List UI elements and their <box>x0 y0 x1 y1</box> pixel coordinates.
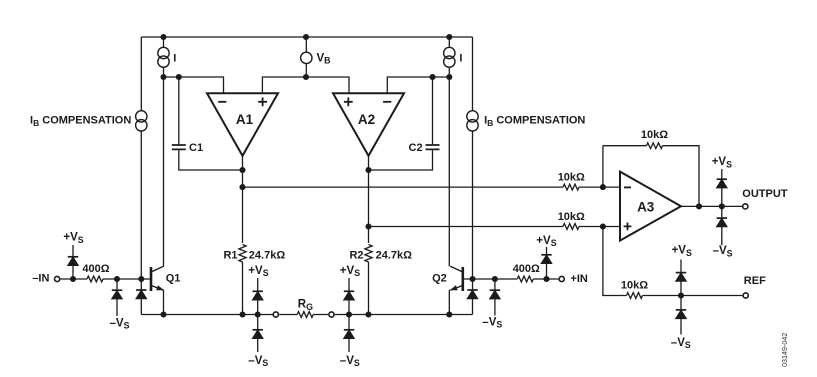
node A2 out C2 junction <box>365 167 371 173</box>
wire -IN to 400 <box>60 278 87 280</box>
node C2 branch <box>429 74 435 80</box>
svg-text:03149-042: 03149-042 <box>780 333 789 367</box>
wire VB stub bottom <box>305 64 307 77</box>
diode -IN to +VS <box>68 256 78 258</box>
wire A2 output upper <box>368 156 370 243</box>
terminal +IN <box>559 276 564 281</box>
diode REF clamp to +VS <box>676 272 686 274</box>
node C1 branch <box>176 74 182 80</box>
wire bottom rail left <box>141 314 272 316</box>
wire -IN clamp up <box>72 266 74 279</box>
wire left rail lower segment <box>140 131 142 279</box>
svg-text:R2: R2 <box>349 250 363 262</box>
svg-text:IB COMPENSATION: IB COMPENSATION <box>484 115 585 128</box>
wire clamp diode right to bottom rail <box>472 299 474 315</box>
node output clamp junction <box>719 203 725 209</box>
capacitor C1 <box>172 145 186 149</box>
wire R2 to bottom rail <box>368 262 370 315</box>
wire right rail to clamp diode <box>472 279 474 290</box>
wire Q2 base to 400 <box>464 278 517 280</box>
svg-text:I: I <box>173 53 176 65</box>
diode +IN to -VS <box>490 289 500 291</box>
wire Q1 emitter <box>163 290 165 315</box>
wire output clamp down <box>721 206 723 218</box>
terminal RG left <box>273 312 278 317</box>
svg-text:10kΩ: 10kΩ <box>558 172 585 184</box>
node A3 inverting feedback junction <box>600 184 606 190</box>
wire REF clamp to -VS label <box>680 319 682 335</box>
diode -IN to -VS <box>112 289 122 291</box>
node top rail I right <box>446 34 452 40</box>
diode base-emitter clamp right <box>467 289 477 291</box>
svg-text:OUTPUT: OUTPUT <box>742 188 788 200</box>
node RG clamp right <box>346 311 352 317</box>
diode REF clamp to -VS <box>676 309 686 311</box>
resistor 400 right <box>517 276 533 282</box>
wire top supply rail <box>141 36 472 38</box>
terminal OUTPUT <box>743 204 748 209</box>
svg-text:–IN: –IN <box>32 273 49 285</box>
terminal REF <box>743 293 748 298</box>
resistor 10k feedback <box>647 143 663 149</box>
svg-text:24.7kΩ: 24.7kΩ <box>376 250 413 262</box>
wire A1 output to 10k <box>243 186 564 188</box>
capacitor C2 <box>426 145 440 149</box>
diode output clamp to +VS <box>717 178 727 180</box>
current source I right <box>444 47 455 58</box>
wire C1 top <box>178 77 180 144</box>
wire A2 inverting input <box>387 77 449 93</box>
wire left rail to clamp diode <box>140 279 142 290</box>
svg-text:10kΩ: 10kΩ <box>641 129 668 141</box>
wire A2 output to 10k <box>369 226 564 228</box>
svg-text:R1: R1 <box>223 250 237 262</box>
wire C2 top <box>432 77 434 144</box>
wire 10k to A3 inverting <box>579 186 620 188</box>
wire left rail upper segment <box>140 37 142 111</box>
wire C2 bottom to A2 output <box>369 150 433 170</box>
wire I source right top <box>448 37 450 47</box>
resistor R1 24.7k <box>239 245 246 263</box>
terminal RG right <box>329 312 334 317</box>
wire RG clamp right up <box>348 300 350 314</box>
svg-text:A3: A3 <box>637 200 655 215</box>
wire right rail lower segment <box>472 131 474 279</box>
wire feedback top right and down <box>663 146 700 207</box>
wire bottom rail right <box>335 314 473 316</box>
op-amp A1 <box>207 93 278 156</box>
node Q2 emitter rail <box>446 311 452 317</box>
wire output clamp to -VS label <box>721 227 723 245</box>
diode RG left to -VS <box>253 329 263 331</box>
transistor Q2 <box>461 267 464 291</box>
svg-text:IB COMPENSATION: IB COMPENSATION <box>30 115 131 128</box>
label A1 minus <box>218 101 226 103</box>
node -IN clamp <box>70 276 76 282</box>
node REF clamp junction <box>678 292 684 298</box>
node base Q2 rail junction <box>469 276 475 282</box>
wire RG pin right <box>313 314 328 316</box>
svg-text:400Ω: 400Ω <box>513 263 540 275</box>
wire RG right -VS stub <box>348 339 350 352</box>
current source I left <box>158 47 169 58</box>
label A3 minus <box>624 186 631 188</box>
wire -IN +VS stub <box>72 245 74 257</box>
node VB top rail <box>303 34 309 40</box>
node +IN clamp <box>543 276 549 282</box>
wire +IN -VS stub <box>494 299 496 316</box>
svg-text:C1: C1 <box>189 142 203 154</box>
svg-text:REF: REF <box>744 275 766 287</box>
transistor Q1 <box>150 267 153 291</box>
resistor RG <box>297 312 313 318</box>
node feedback output junction <box>696 203 702 209</box>
wire REF clamp up <box>680 281 682 295</box>
terminal -IN <box>55 276 60 281</box>
svg-text:Q2: Q2 <box>432 273 447 285</box>
wire I source left to node <box>163 67 165 77</box>
wire R1 to bottom rail <box>242 262 244 315</box>
wire output clamp to +VS label <box>721 169 723 179</box>
wire RG clamp left up <box>257 300 259 314</box>
diode RG left to +VS <box>253 290 263 292</box>
node -IN series clamp <box>114 276 120 282</box>
wire 400 to +IN <box>533 278 558 280</box>
wire RG clamp left down <box>257 315 259 330</box>
wire VB stub top <box>305 37 307 52</box>
wire Q1 collector line <box>163 77 165 266</box>
node I right lower <box>446 74 452 80</box>
wire RG clamp right down <box>348 315 350 330</box>
resistor 10k A3 non-inverting input <box>563 224 579 230</box>
wire A1 output upper <box>242 156 244 243</box>
voltage source VB <box>301 52 312 63</box>
wire REF clamp down <box>680 296 682 310</box>
wire RG right +VS stub <box>348 278 350 291</box>
wire +IN clamp up <box>546 264 548 279</box>
wire I source left top <box>163 37 165 47</box>
node I left lower <box>160 74 166 80</box>
wire Q2 collector line <box>448 77 450 266</box>
diode base-emitter clamp left <box>136 289 146 291</box>
svg-text:I: I <box>459 53 462 65</box>
diode output clamp to -VS <box>717 217 727 219</box>
wire A3 non-inverting down <box>603 227 627 296</box>
resistor 400 left <box>87 276 103 282</box>
svg-text:+IN: +IN <box>570 273 587 285</box>
resistor 10k A3 inverting input <box>563 184 579 190</box>
label A3 plus <box>624 223 632 231</box>
current source IB compensation left <box>136 111 147 122</box>
svg-text:Q1: Q1 <box>166 273 181 285</box>
resistor 10k REF <box>627 293 643 299</box>
node Q1 emitter rail <box>160 311 166 317</box>
wire feedback up <box>602 146 604 187</box>
wire A3 output <box>681 205 742 207</box>
wire +IN +VS stub <box>546 247 548 255</box>
node base Q1 rail junction <box>138 276 144 282</box>
node top rail I left <box>160 34 166 40</box>
label A2 plus <box>344 97 353 106</box>
wire REF clamp to +VS label <box>680 260 682 273</box>
wire 400 to Q1 base <box>103 278 150 280</box>
node A2 out to A3 junction <box>365 223 371 229</box>
svg-text:C2: C2 <box>409 142 423 154</box>
svg-text:10kΩ: 10kΩ <box>621 280 648 292</box>
wire A2 non-inverting input <box>306 77 349 93</box>
svg-text:24.7kΩ: 24.7kΩ <box>249 250 286 262</box>
svg-text:A1: A1 <box>236 112 254 127</box>
node R1 bottom rail <box>239 311 245 317</box>
svg-text:10kΩ: 10kΩ <box>558 211 585 223</box>
node R2 bottom rail <box>365 311 371 317</box>
node A1 out to A3 junction <box>239 184 245 190</box>
wire A1 inverting input <box>164 77 224 93</box>
diode +IN to +VS <box>541 254 551 256</box>
wire clamp diode to bottom rail <box>140 299 142 315</box>
wire RG left -VS stub <box>257 339 259 352</box>
wire -IN -VS stub <box>116 299 118 316</box>
wire RG left +VS stub <box>257 278 259 291</box>
diode RG right to -VS <box>344 329 354 331</box>
label A1 plus <box>258 97 267 106</box>
wire +IN clamp down <box>494 279 496 290</box>
diode RG right to +VS <box>344 290 354 292</box>
node A3 non-inverting REF junction <box>600 223 606 229</box>
wire I source right to node <box>448 67 450 77</box>
wire C1 bottom to A1 output <box>179 150 243 170</box>
label A2 minus <box>383 101 391 103</box>
wire -IN clamp down <box>116 279 118 290</box>
svg-text:400Ω: 400Ω <box>82 263 109 275</box>
node +IN series clamp <box>492 276 498 282</box>
op-amp A3 <box>620 172 681 241</box>
wire 10k REF to terminal <box>643 295 743 297</box>
wire output clamp up <box>721 188 723 206</box>
current source IB compensation right <box>467 111 478 122</box>
node VB lower <box>303 74 309 80</box>
wire right rail upper segment <box>472 37 474 111</box>
wire feedback top left <box>603 145 647 147</box>
wire RG pin left <box>279 314 297 316</box>
node A1 out C1 junction <box>239 167 245 173</box>
wire 10k to A3 non-inverting <box>579 226 620 228</box>
svg-text:A2: A2 <box>358 112 375 127</box>
wire A1 non-inverting input <box>262 77 306 93</box>
node RG clamp left <box>255 311 261 317</box>
wire Q2 emitter <box>448 290 450 315</box>
op-amp A2 <box>333 93 404 156</box>
resistor R2 24.7k <box>365 245 372 263</box>
